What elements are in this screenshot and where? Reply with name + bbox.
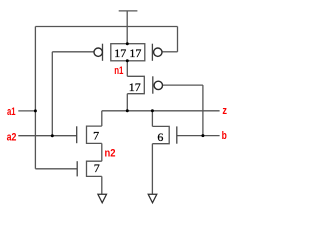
svg-text:7: 7 — [94, 161, 100, 175]
svg-text:6: 6 — [157, 130, 163, 144]
pmos M3 gate bar — [152, 76, 154, 93]
pmos M1 gate bar — [102, 44, 104, 61]
wire z rail drop to M4 drain — [101, 111, 103, 126]
pmos M1 gate bubble — [94, 48, 102, 56]
junction dot z M6 drain — [151, 109, 154, 112]
wire net a2 left vertical — [51, 52, 53, 136]
wire M1 gate bubble lead — [52, 51, 94, 53]
wire b pin lead — [177, 135, 220, 137]
wire z rail drop to M6 drain — [151, 111, 153, 127]
svg-text:17: 17 — [129, 80, 141, 94]
wire node n2 segment — [101, 143, 103, 161]
junction dot b — [201, 134, 204, 137]
svg-text:17: 17 — [129, 46, 141, 60]
nmos M5 channel box 7 — [87, 161, 102, 176]
junction dot n1 at box bottom — [126, 59, 129, 62]
vdd supply symbol — [119, 11, 138, 44]
pmos M3 channel box 17 — [127, 76, 144, 94]
wire M5 source to ground — [101, 176, 103, 194]
pmos pair M1 M2 channel box 17 17 — [111, 44, 145, 61]
nmos M4 channel box 7 — [87, 126, 102, 143]
wire net z rail — [102, 110, 220, 112]
junction dot a1 — [34, 109, 37, 112]
svg-text:a2: a2 — [7, 132, 17, 144]
svg-text:17: 17 — [114, 46, 126, 60]
pmos M2 gate bubble — [154, 48, 162, 56]
wire net b vertical — [202, 85, 204, 136]
svg-text:a1: a1 — [7, 106, 16, 118]
pmos M2 gate bar — [151, 44, 153, 61]
svg-text:n2: n2 — [105, 148, 116, 160]
wire a2 pin lead to M4 gate — [18, 135, 76, 137]
junction dot z M3 drain — [126, 109, 129, 112]
nmos M4 gate bar — [76, 126, 78, 143]
ground symbol right — [148, 194, 157, 203]
wire net a1 top rail — [35, 26, 177, 28]
wire node n1 segment — [126, 61, 128, 77]
svg-text:7: 7 — [93, 128, 99, 142]
junction dot M1M2 source at box top — [126, 42, 129, 45]
wire a1 pin lead — [18, 110, 35, 112]
wire M6 source to ground — [151, 144, 153, 194]
wire net a1 left vertical — [34, 27, 36, 169]
wire M2 gate bubble lead — [162, 51, 178, 53]
wire a1 lead to M5 gate — [35, 168, 77, 170]
junction dot a2 — [51, 134, 54, 137]
nmos M5 gate bar — [76, 161, 78, 176]
wire M3 gate bubble lead toward b — [162, 84, 203, 86]
wire net a1 right drop to M2 gate — [177, 27, 179, 52]
ground symbol left — [98, 194, 107, 203]
wire M3 drain to z rail — [126, 94, 128, 111]
svg-text:b: b — [222, 130, 227, 142]
svg-text:n1: n1 — [114, 65, 123, 77]
pmos M3 gate bubble — [154, 81, 162, 89]
svg-text:z: z — [222, 105, 227, 117]
nmos M6 gate bar — [176, 126, 178, 143]
nmos M6 channel box 6 — [152, 126, 169, 143]
